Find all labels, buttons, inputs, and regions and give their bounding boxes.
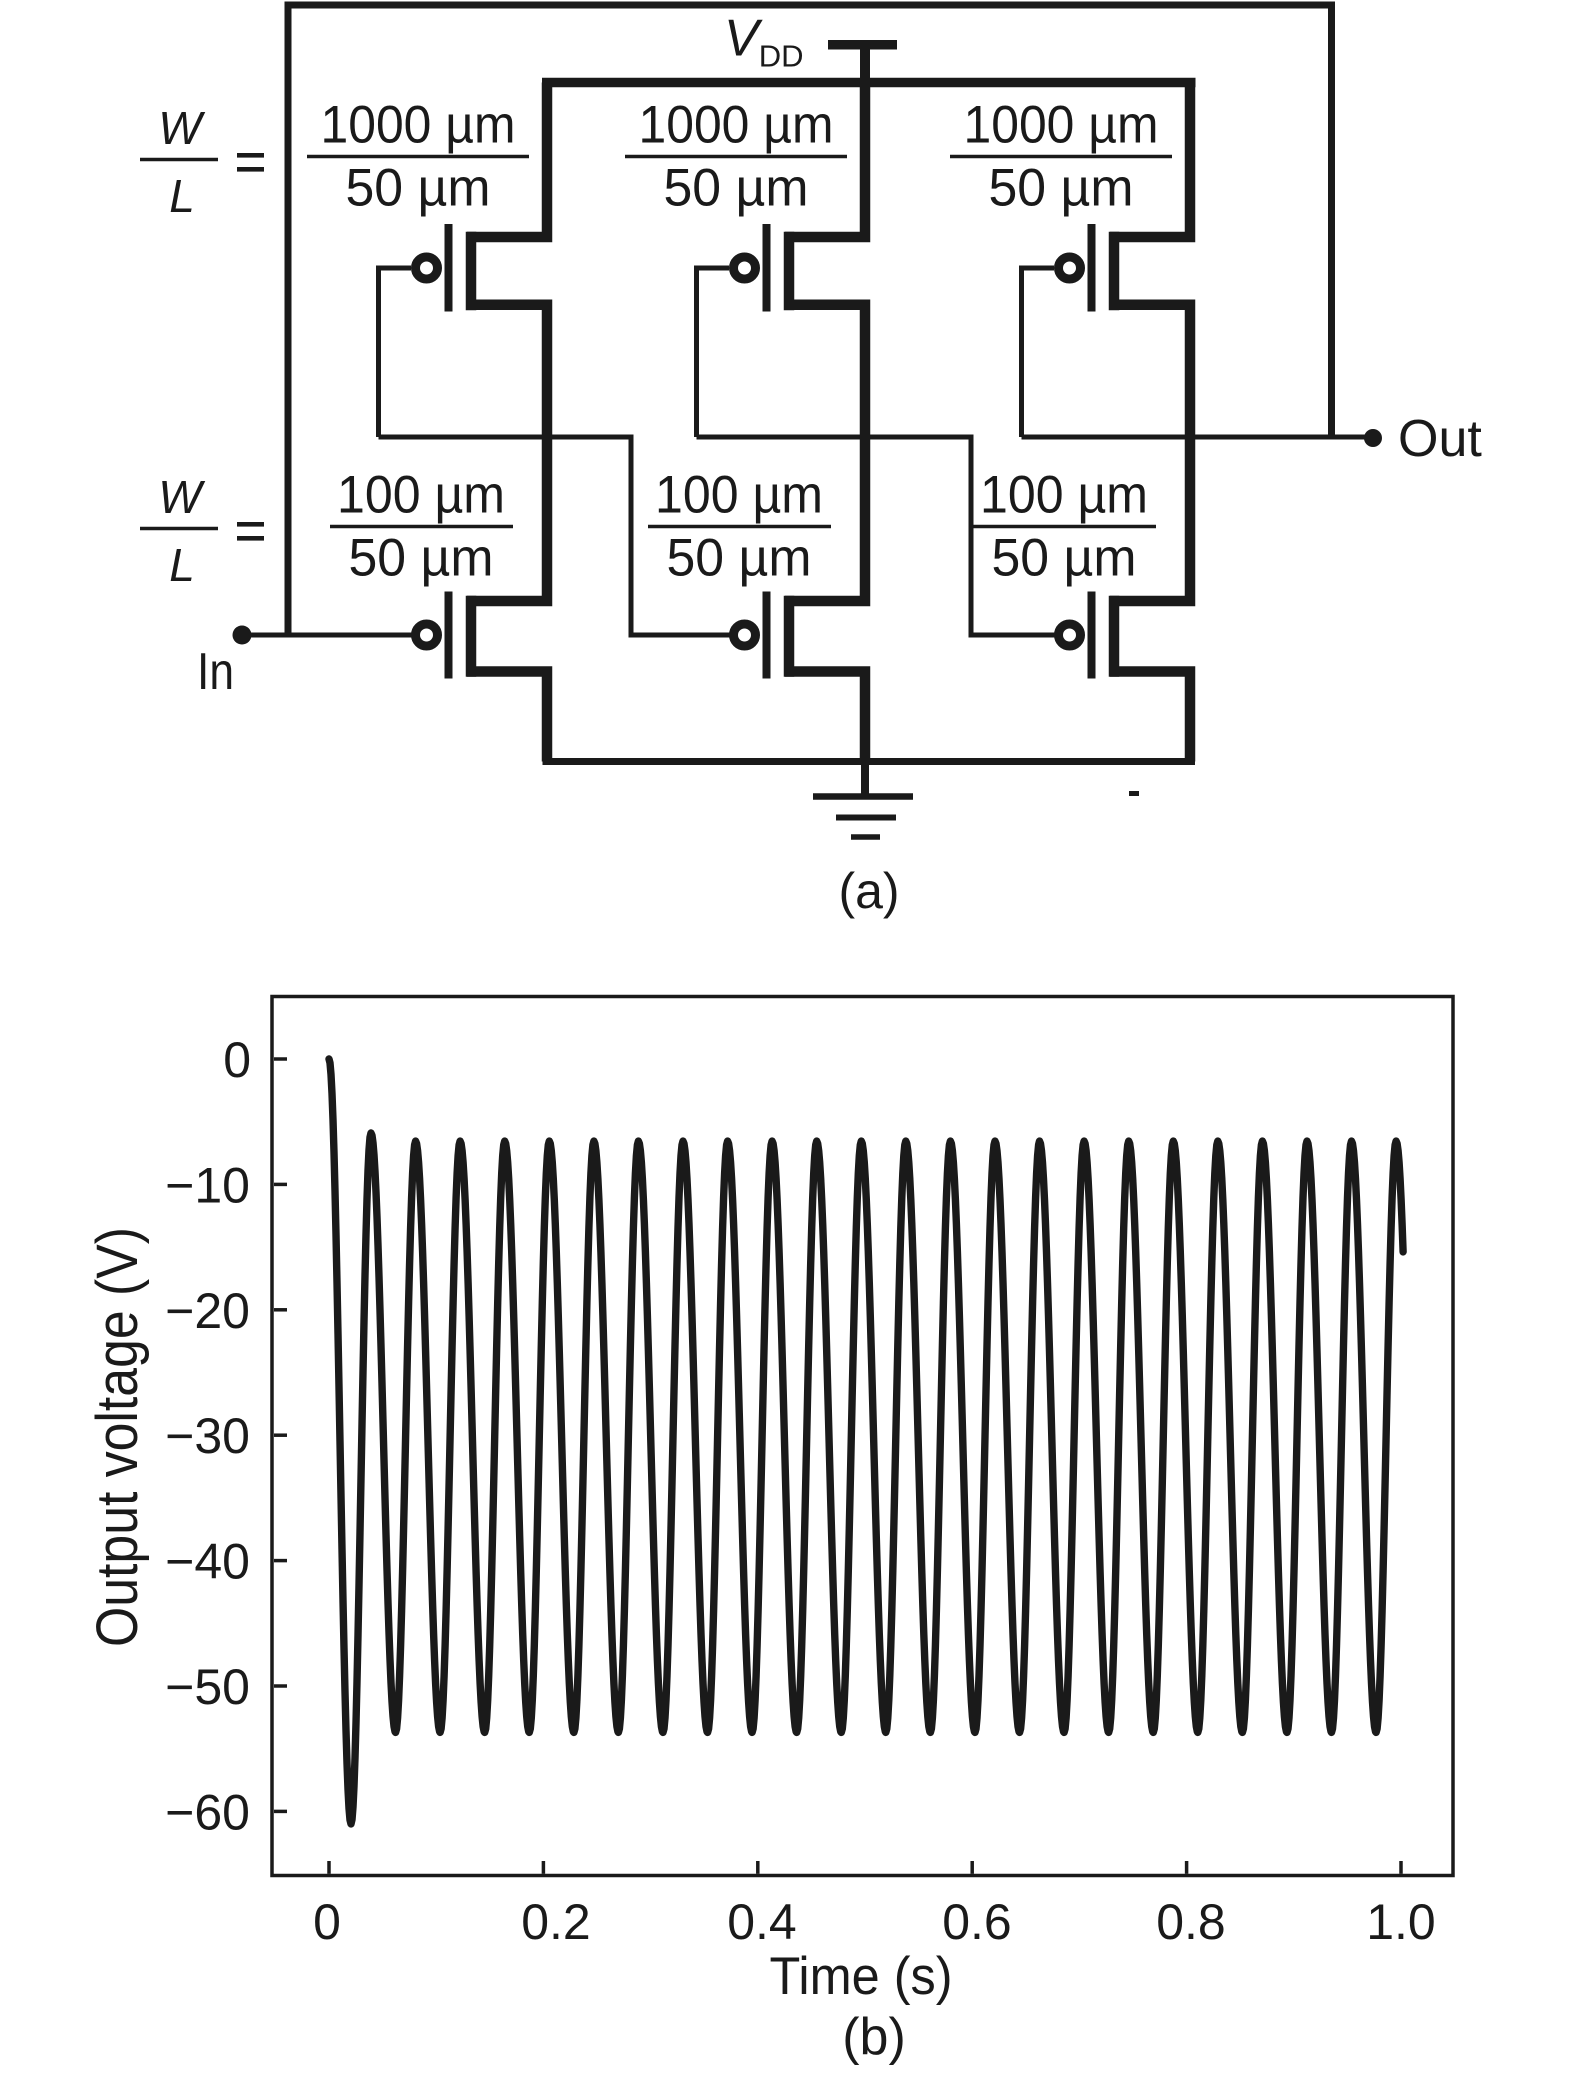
svg-text:(b): (b) (842, 2008, 906, 2066)
svg-text:−60: −60 (165, 1784, 250, 1840)
transistor M2D (driver, 100/50) (734, 592, 866, 766)
svg-text:L: L (169, 170, 195, 222)
wire: stage 3 output to Out (1022, 435, 1374, 440)
label W/L = (top, loads) (140, 102, 264, 222)
wire: In to M1D gate (242, 633, 412, 638)
VDD supply symbol (828, 45, 897, 87)
ground symbol (813, 758, 913, 837)
transistor M1D (driver, 100/50) (416, 592, 548, 762)
svg-text:Output voltage (V): Output voltage (V) (85, 1227, 150, 1647)
x tick marks (329, 1861, 1401, 1874)
svg-text:Time (s): Time (s) (770, 1947, 953, 2006)
VDD rail (542, 78, 1196, 88)
transistor M2L (load, 1000/50) (734, 83, 866, 602)
y tick marks (274, 1059, 287, 1811)
transistor M1L (load, 1000/50) (416, 83, 548, 602)
svg-text:1000 µm: 1000 µm (964, 96, 1159, 155)
svg-text:0: 0 (313, 1894, 341, 1950)
transistor M3L (load, 1000/50) (1059, 83, 1191, 602)
plot axes box (272, 997, 1453, 1876)
wire: stage 2 output to M3D gate (697, 437, 1055, 635)
y tick labels (165, 1032, 251, 1840)
svg-text:1000 µm: 1000 µm (321, 96, 516, 155)
ground rail (543, 758, 1196, 765)
wire: M1L gate to stage 1 output node (379, 268, 412, 437)
svg-text:50 µm: 50 µm (992, 529, 1137, 588)
label W/L = (bottom, drivers) (140, 471, 264, 591)
node In (input dot) (233, 626, 252, 645)
svg-text:0.4: 0.4 (727, 1894, 797, 1950)
svg-text:W: W (158, 471, 206, 523)
svg-text:L: L (169, 539, 195, 591)
svg-text:1.0: 1.0 (1366, 1894, 1436, 1950)
svg-text:−10: −10 (165, 1157, 250, 1213)
svg-text:100 µm: 100 µm (337, 466, 505, 525)
node Out (output dot) (1364, 429, 1382, 447)
wire: M3L gate to stage 3 output node (1022, 268, 1055, 437)
svg-text:−40: −40 (165, 1534, 250, 1590)
svg-text:−20: −20 (165, 1283, 250, 1339)
svg-text:0.8: 0.8 (1156, 1894, 1226, 1950)
svg-text:Out: Out (1398, 410, 1482, 468)
svg-text:50 µm: 50 µm (667, 529, 812, 588)
svg-text:(a): (a) (838, 863, 899, 919)
svg-text:50 µm: 50 µm (349, 529, 494, 588)
svg-text:0.2: 0.2 (521, 1894, 591, 1950)
wire: M2L gate to stage 2 output node (697, 268, 730, 437)
svg-text:100 µm: 100 µm (980, 466, 1148, 525)
svg-text:100 µm: 100 µm (655, 466, 823, 525)
svg-text:W: W (158, 102, 206, 154)
svg-text:50 µm: 50 µm (346, 159, 491, 218)
wire: feedback loop Out to In (outer border) (288, 5, 1332, 635)
stray mark (1129, 791, 1139, 796)
svg-text:−50: −50 (165, 1659, 250, 1715)
svg-text:In: In (197, 643, 234, 701)
svg-text:50 µm: 50 µm (989, 159, 1134, 218)
svg-text:1000 µm: 1000 µm (639, 96, 834, 155)
waveform trace (329, 1059, 1403, 1824)
wire: stage 1 output to M2D gate (379, 437, 730, 635)
svg-text:0: 0 (223, 1032, 251, 1088)
svg-text:50 µm: 50 µm (664, 159, 809, 218)
svg-text:−30: −30 (165, 1408, 250, 1464)
transistor M3D (driver, 100/50) (1059, 592, 1191, 762)
svg-text:0.6: 0.6 (942, 1894, 1012, 1950)
x tick labels (313, 1894, 1436, 1950)
